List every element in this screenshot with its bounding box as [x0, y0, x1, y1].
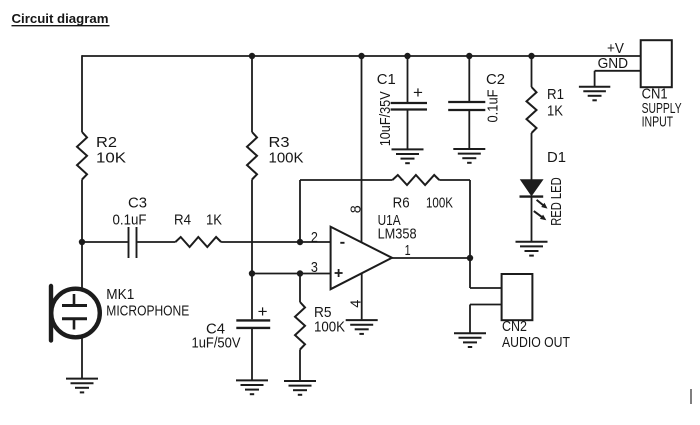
svg-text:+: +	[413, 83, 423, 102]
svg-text:MICROPHONE: MICROPHONE	[106, 303, 189, 320]
svg-text:D1: D1	[547, 149, 566, 166]
svg-text:1K: 1K	[547, 103, 563, 120]
svg-text:C3: C3	[128, 195, 147, 212]
svg-text:C2: C2	[486, 71, 505, 88]
svg-text:R3: R3	[269, 134, 290, 151]
svg-text:1K: 1K	[206, 212, 222, 229]
svg-text:100K: 100K	[426, 195, 453, 212]
svg-text:10K: 10K	[96, 150, 126, 167]
svg-text:RED LED: RED LED	[548, 177, 565, 226]
svg-text:1: 1	[405, 242, 411, 259]
svg-text:CN2: CN2	[502, 318, 527, 335]
svg-text:R6: R6	[393, 195, 410, 212]
svg-text:8: 8	[348, 205, 365, 213]
svg-text:R1: R1	[547, 86, 564, 103]
svg-text:2: 2	[311, 229, 318, 246]
svg-text:R2: R2	[96, 134, 117, 151]
svg-text:1uF/50V: 1uF/50V	[192, 335, 241, 352]
svg-text:AUDIO OUT: AUDIO OUT	[502, 334, 570, 351]
svg-text:100K: 100K	[314, 319, 345, 336]
svg-text:GND: GND	[598, 55, 629, 72]
svg-text:R4: R4	[174, 212, 191, 229]
svg-text:INPUT: INPUT	[642, 113, 674, 130]
svg-text:0.1uF: 0.1uF	[113, 212, 147, 229]
svg-text:C1: C1	[377, 71, 396, 88]
svg-text:0.1uF: 0.1uF	[484, 90, 501, 123]
svg-text:100K: 100K	[269, 150, 304, 167]
svg-text:Circuit diagram: Circuit diagram	[12, 11, 109, 26]
svg-text:+: +	[258, 302, 268, 321]
svg-text:4: 4	[348, 300, 365, 308]
svg-text:10uF/35V: 10uF/35V	[377, 91, 394, 146]
svg-text:LM358: LM358	[378, 226, 417, 243]
svg-text:MK1: MK1	[106, 286, 134, 303]
svg-text:3: 3	[311, 259, 318, 276]
